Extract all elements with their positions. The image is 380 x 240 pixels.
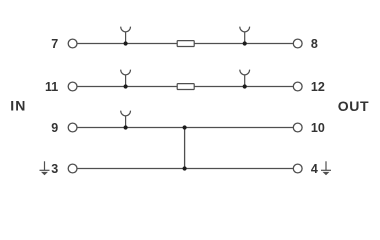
wire vertical (row 3 to row 4 junction) <box>184 128 186 169</box>
wire row 3 (terminal 9 to terminal 10) <box>77 127 293 129</box>
terminal circle 9 <box>68 123 77 132</box>
terminal circle 4 <box>293 164 302 173</box>
svg-text:9: 9 <box>51 121 58 135</box>
svg-text:3: 3 <box>51 162 58 176</box>
terminal circle 12 <box>293 82 302 91</box>
terminal circle 8 <box>293 39 302 48</box>
junction dot row 3 fork <box>124 125 128 129</box>
arrester F3 (row 2 left) <box>121 70 131 87</box>
terminal circle 11 <box>68 82 77 91</box>
svg-text:4: 4 <box>311 162 318 176</box>
arrester F4 (row 2 right) <box>240 70 250 87</box>
junction dot row 2 right <box>243 84 247 88</box>
svg-text:10: 10 <box>311 121 325 135</box>
junction dot row 1 right <box>243 41 247 45</box>
terminal circle 3 <box>68 164 77 173</box>
terminal circle 7 <box>68 39 77 48</box>
ground symbol right (at terminal 4) <box>321 161 331 175</box>
resistor R2 <box>177 84 194 90</box>
terminal circle 10 <box>293 123 302 132</box>
arrester F1 (row 1 left) <box>121 27 131 44</box>
junction node row 4 / vertical <box>183 166 187 170</box>
arrester F5 (row 3) <box>121 111 131 128</box>
svg-text:7: 7 <box>51 37 58 51</box>
wire row 2 (terminal 11 to terminal 12) <box>77 86 293 88</box>
junction dot row 1 left <box>124 41 128 45</box>
wire row 1 (terminal 7 to terminal 8) <box>77 43 293 45</box>
svg-text:8: 8 <box>311 37 318 51</box>
svg-text:OUT: OUT <box>338 98 369 114</box>
svg-text:12: 12 <box>311 80 325 94</box>
junction dot row 2 left <box>124 84 128 88</box>
ground symbol left (at terminal 3) <box>40 161 50 175</box>
junction node row 3 / vertical <box>183 125 187 129</box>
svg-text:11: 11 <box>45 80 58 94</box>
arrester F2 (row 1 right) <box>240 27 250 44</box>
resistor R1 <box>177 41 194 47</box>
wire row 4 (terminal 3 to terminal 4) <box>77 168 293 170</box>
svg-text:IN: IN <box>10 97 26 113</box>
